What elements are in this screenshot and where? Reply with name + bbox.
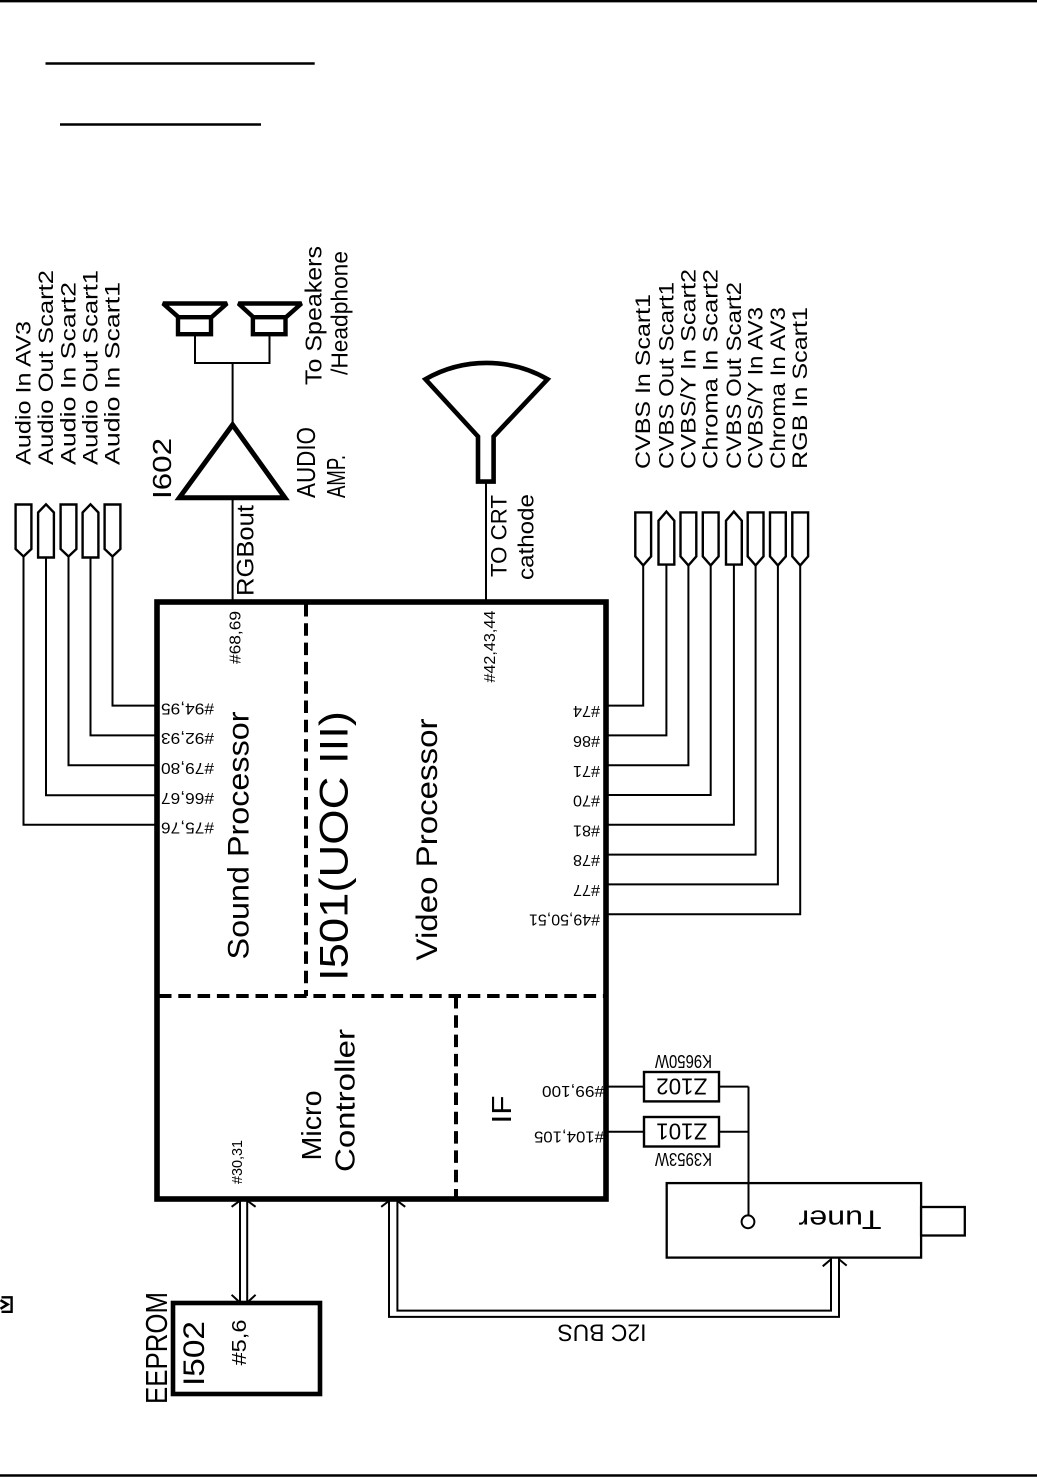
svg-text:Micro: Micro bbox=[296, 1091, 327, 1161]
connector: CVBS Out Scart1 bbox=[659, 512, 675, 565]
wire: CVBS Out Scart2 to pin 81 bbox=[606, 565, 734, 825]
label: CVBS Out Scart2 bbox=[723, 282, 746, 469]
label: Audio In Scart1 bbox=[102, 282, 125, 465]
svg-text:#70: #70 bbox=[573, 792, 600, 809]
EEPROM bus arrowheads top bbox=[232, 1201, 256, 1207]
label: CVBS In Scart1 bbox=[632, 294, 655, 469]
svg-text:#42,43,44: #42,43,44 bbox=[482, 611, 499, 683]
svg-text:K9650W: K9650W bbox=[655, 1051, 712, 1071]
svg-text:#79,80: #79,80 bbox=[161, 759, 214, 776]
wire: RGB In Scart1 to pin 49,50,51 bbox=[606, 565, 800, 914]
svg-text:#5,6: #5,6 bbox=[229, 1320, 251, 1366]
audio amp I602 bbox=[179, 425, 285, 498]
svg-text:AUDIO: AUDIO bbox=[291, 427, 321, 498]
svg-text:#74: #74 bbox=[573, 702, 600, 719]
title underline 2 bbox=[60, 123, 261, 126]
svg-text:CVBS Out Scart2: CVBS Out Scart2 bbox=[723, 282, 746, 469]
connector: Audio In AV3 bbox=[16, 505, 32, 557]
CRT funnel symbol bbox=[425, 363, 547, 482]
label Micro Controller bbox=[296, 1091, 327, 1161]
svg-text:/Headphone: /Headphone bbox=[327, 251, 353, 375]
I2C bus arrowheads at tuner bbox=[823, 1260, 847, 1267]
wire: CRT cathode to I501 bbox=[485, 482, 487, 602]
connector: Audio Out Scart2 bbox=[38, 504, 54, 557]
wire: Audio Out Scart2 to pin 66,67 bbox=[46, 558, 157, 796]
tuner antenna stub bbox=[921, 1207, 965, 1236]
svg-text:CVBS In Scart1: CVBS In Scart1 bbox=[632, 294, 655, 469]
label Video Processor bbox=[411, 719, 444, 961]
wire: amp output RGBout to I501 bbox=[232, 498, 234, 602]
svg-text:#81: #81 bbox=[573, 821, 600, 838]
svg-text:K3953W: K3953W bbox=[655, 1149, 712, 1169]
wire: Audio In Scart2 to pin 79,80 bbox=[69, 557, 158, 766]
label: CVBS/Y In AV3 bbox=[745, 307, 768, 469]
connector: CVBS Out Scart2 bbox=[726, 512, 742, 565]
tuner block bbox=[667, 1183, 921, 1258]
svg-text:RGBout: RGBout bbox=[233, 505, 260, 596]
title underline 1 bbox=[46, 62, 315, 65]
wire: pin 104,105 to Z101 bbox=[606, 1131, 644, 1133]
I2C bus wires bbox=[389, 1199, 839, 1317]
wire: CVBS/Y In AV3 to pin 78 bbox=[606, 565, 756, 854]
label TO CRT cathode bbox=[487, 495, 512, 577]
svg-text:I502: I502 bbox=[178, 1321, 211, 1386]
svg-text:Sound Processor: Sound Processor bbox=[222, 712, 255, 960]
svg-text:IF: IF bbox=[486, 1096, 517, 1124]
svg-text:CVBS/Y In Scart2: CVBS/Y In Scart2 bbox=[677, 269, 700, 469]
svg-text:cathode: cathode bbox=[514, 494, 539, 580]
svg-text:CVBS Out Scart1: CVBS Out Scart1 bbox=[655, 282, 678, 469]
svg-text:CVBS/Y In AV3: CVBS/Y In AV3 bbox=[745, 307, 768, 469]
svg-text:Audio Out Scart2: Audio Out Scart2 bbox=[35, 270, 58, 465]
connector: Audio Out Scart1 bbox=[83, 504, 99, 557]
wire: Audio Out Scart1 to pin 92,93 bbox=[91, 558, 158, 736]
page number icon bbox=[1, 1297, 12, 1312]
filter Z102 bbox=[644, 1072, 719, 1101]
wire: Chroma In Scart2 to pin 70 bbox=[606, 565, 711, 795]
svg-text:TO CRT: TO CRT bbox=[487, 495, 512, 577]
svg-text:#49,50,51: #49,50,51 bbox=[529, 910, 600, 927]
pin label #30,31 bbox=[229, 1140, 246, 1184]
label: RGB In Scart1 bbox=[789, 307, 812, 469]
IC I501 (UOC III) main block bbox=[157, 602, 606, 1199]
svg-text:Chroma In AV3: Chroma In AV3 bbox=[767, 307, 790, 469]
connector: CVBS In Scart1 bbox=[635, 512, 651, 565]
wire: node to tuner IF output bbox=[748, 1087, 750, 1216]
label: Audio In Scart2 bbox=[58, 282, 81, 465]
connector: Chroma In AV3 bbox=[770, 512, 786, 565]
svg-text:Audio In Scart1: Audio In Scart1 bbox=[102, 282, 125, 465]
svg-text:I501(UOC III): I501(UOC III) bbox=[313, 711, 357, 981]
svg-text:#94,95: #94,95 bbox=[161, 699, 214, 716]
svg-text:#92,93: #92,93 bbox=[161, 729, 214, 746]
svg-text:#104,105: #104,105 bbox=[534, 1128, 604, 1145]
connector: CVBS/Y In Scart2 bbox=[681, 512, 697, 565]
svg-text:AMP.: AMP. bbox=[321, 455, 351, 498]
svg-text:Audio Out Scart1: Audio Out Scart1 bbox=[80, 270, 103, 465]
svg-text:#77: #77 bbox=[573, 881, 600, 898]
svg-text:Z101: Z101 bbox=[656, 1119, 707, 1145]
svg-text:#78: #78 bbox=[573, 851, 600, 868]
svg-text:#68,69: #68,69 bbox=[228, 611, 245, 664]
label RGBout bbox=[233, 505, 260, 596]
EEPROM IC I502 bbox=[173, 1303, 320, 1394]
label I602 bbox=[147, 438, 177, 499]
pin label #68,69 bbox=[228, 611, 245, 664]
svg-text:#99,100: #99,100 bbox=[542, 1082, 604, 1099]
svg-text:#71: #71 bbox=[573, 762, 600, 779]
svg-text:I602: I602 bbox=[147, 438, 177, 499]
label I501(UOC III) bbox=[313, 711, 357, 981]
label I502 bbox=[178, 1321, 211, 1386]
I2C bus arrowheads at I501 bbox=[381, 1201, 405, 1207]
label Sound Processor bbox=[222, 712, 255, 960]
label To Speakers /Headphone bbox=[301, 246, 327, 385]
filter Z101 bbox=[644, 1117, 719, 1147]
divider: processors/microcontroller dashed bbox=[159, 994, 604, 998]
svg-text:Video Processor: Video Processor bbox=[411, 719, 444, 961]
svg-text:Tuner: Tuner bbox=[798, 1205, 881, 1235]
page top rule bbox=[0, 0, 1037, 2]
EEPROM bus wires bbox=[239, 1199, 241, 1303]
wire: pin 99,100 to Z102 bbox=[606, 1086, 644, 1088]
EEPROM bus arrowheads bottom bbox=[232, 1295, 256, 1302]
wire: CVBS Out Scart1 to pin 86 bbox=[606, 565, 666, 736]
divider: sound/video dashed bbox=[304, 604, 308, 996]
page footer rule bbox=[0, 1474, 1037, 1477]
svg-text:#75,76: #75,76 bbox=[161, 819, 214, 836]
pin label #5,6 bbox=[229, 1320, 251, 1366]
connector: RGB In Scart1 bbox=[792, 512, 808, 565]
wire: Chroma In AV3 to pin 77 bbox=[606, 565, 778, 884]
wire: Audio In Scart1 to pin 94,95 bbox=[113, 557, 158, 706]
wire: Audio In AV3 to pin 75,76 bbox=[24, 557, 158, 825]
svg-text:EEPROM: EEPROM bbox=[139, 1292, 174, 1404]
label: CVBS Out Scart1 bbox=[655, 282, 678, 469]
wire: speakers to amp bbox=[195, 335, 270, 364]
svg-text:Audio In AV3: Audio In AV3 bbox=[13, 321, 36, 465]
svg-text:Audio In Scart2: Audio In Scart2 bbox=[58, 282, 81, 465]
wire: Z101 to tuner node bbox=[719, 1131, 749, 1133]
pin label #42,43,44 bbox=[482, 611, 499, 683]
label EEPROM bbox=[139, 1292, 174, 1404]
label AUDIO AMP. bbox=[291, 427, 321, 498]
label: Chroma In AV3 bbox=[767, 307, 790, 469]
svg-text:#86: #86 bbox=[573, 732, 600, 749]
wire: speaker join to amp apex bbox=[232, 363, 234, 425]
connector: CVBS/Y In AV3 bbox=[748, 512, 764, 565]
svg-text:To Speakers: To Speakers bbox=[301, 246, 327, 385]
wire: CVBS/Y In Scart2 to pin 71 bbox=[606, 565, 688, 765]
svg-text:#66,67: #66,67 bbox=[161, 789, 214, 806]
speaker LS1 bbox=[163, 304, 227, 335]
label: Audio Out Scart1 bbox=[80, 270, 103, 465]
connector: Chroma In Scart2 bbox=[703, 512, 719, 565]
connector: Audio In Scart1 bbox=[105, 505, 121, 557]
node: tuner IF output circle bbox=[742, 1215, 755, 1228]
svg-text:Z102: Z102 bbox=[656, 1073, 707, 1099]
label: CVBS/Y In Scart2 bbox=[677, 269, 700, 469]
speaker LS2 bbox=[238, 304, 301, 335]
label: Audio In AV3 bbox=[13, 321, 36, 465]
svg-text:Controller: Controller bbox=[329, 1029, 360, 1172]
svg-text:RGB In Scart1: RGB In Scart1 bbox=[789, 307, 812, 469]
connector: Audio In Scart2 bbox=[61, 505, 77, 557]
label IF bbox=[486, 1096, 517, 1124]
wire: Z102 to tuner node bbox=[719, 1086, 749, 1088]
svg-text:I2C BUS: I2C BUS bbox=[558, 1319, 647, 1346]
wire: CVBS In Scart1 to pin 74 bbox=[606, 565, 643, 705]
svg-text:Chroma In Scart2: Chroma In Scart2 bbox=[700, 269, 723, 469]
divider: micro/IF dashed bbox=[454, 996, 458, 1197]
label: Audio Out Scart2 bbox=[35, 270, 58, 465]
svg-text:#30,31: #30,31 bbox=[229, 1140, 246, 1184]
label: Chroma In Scart2 bbox=[700, 269, 723, 469]
